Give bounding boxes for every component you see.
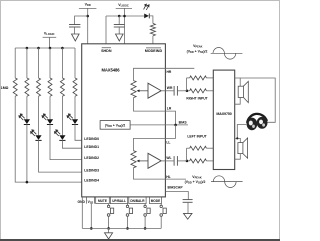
LED D1 col2 xyxy=(19,96,30,124)
svg-text:(VDD + VSS)/2: (VDD + VSS)/2 xyxy=(105,124,125,129)
wiper right xyxy=(137,90,148,93)
wire col5 cathode to LEDIND1 xyxy=(62,140,81,148)
svg-text:LEDIND1: LEDIND1 xyxy=(84,145,99,149)
wire LL internal xyxy=(134,138,166,150)
wire button rail xyxy=(82,227,161,229)
node BIAS xyxy=(165,120,188,126)
sine symbol left xyxy=(211,176,243,188)
node VDD bypass xyxy=(75,15,89,25)
wire col4 cathode to LEDIND2 xyxy=(50,124,82,159)
pin MODEIND xyxy=(145,48,163,53)
resistor R2 col2 xyxy=(25,48,29,96)
svg-text:RIGHT INPUT: RIGHT INPUT xyxy=(186,97,207,101)
label VLOGIC xyxy=(118,3,129,8)
pin HR wire xyxy=(165,68,194,74)
svg-text:MODEIND: MODEIND xyxy=(145,49,163,53)
svg-text:HL: HL xyxy=(166,175,170,179)
ground rail symbol xyxy=(105,228,113,239)
svg-text:MAX9750: MAX9750 xyxy=(216,112,231,116)
resistor R9 input right xyxy=(188,89,213,93)
wire VSS xyxy=(90,204,93,230)
label RIGHT INPUT xyxy=(186,97,207,101)
svg-text:BIAS: BIAS xyxy=(179,120,188,124)
wire col6 cathode to LEDIND0 xyxy=(75,124,82,140)
speaker left xyxy=(238,138,248,158)
svg-text:LEDIND3: LEDIND3 xyxy=(84,169,99,173)
switch S4 MODE xyxy=(160,204,166,229)
switch S2 UP/BALL xyxy=(126,204,132,230)
svg-text:LR: LR xyxy=(167,107,172,111)
svg-text:(VDD + VSS)/2: (VDD + VSS)/2 xyxy=(185,180,206,185)
svg-text:HR: HR xyxy=(167,70,172,74)
svg-text:LEDIND0: LEDIND0 xyxy=(84,137,99,141)
LED D5 col6 xyxy=(67,96,78,124)
capacitor C6 xyxy=(183,200,193,214)
ground C6 xyxy=(184,213,193,219)
pin WL wire xyxy=(165,156,173,161)
speaker right xyxy=(238,81,248,102)
svg-text:MODE: MODE xyxy=(151,199,160,203)
node left input xyxy=(186,148,189,162)
sine symbol right xyxy=(211,47,243,59)
op-amp A1 xyxy=(148,83,165,98)
wire LED rail xyxy=(15,47,75,49)
svg-text:SHDN: SHDN xyxy=(101,49,112,53)
annotation VPEAK right xyxy=(187,44,208,54)
svg-text:UP/BALL: UP/BALL xyxy=(112,199,126,203)
pin WR wire xyxy=(165,86,173,91)
pin LR wire xyxy=(165,107,175,125)
capacitor C4 xyxy=(174,86,187,96)
ground C2 xyxy=(116,34,124,41)
pin LEDIND4 xyxy=(84,179,99,183)
potentiometer right xyxy=(131,81,165,112)
wire OUTR- xyxy=(235,97,241,104)
capacitor C1 xyxy=(69,25,80,35)
svg-text:VPEAK: VPEAK xyxy=(192,175,202,180)
capacitor C2 xyxy=(114,25,125,35)
label VLOGIC array xyxy=(44,32,55,37)
svg-text:LEDIND4: LEDIND4 xyxy=(84,179,99,183)
svg-text:VLOGIC: VLOGIC xyxy=(44,32,55,37)
LED D3 col4 xyxy=(42,96,53,124)
IC U1 MAX5486 xyxy=(82,44,166,197)
pin MODE box xyxy=(150,197,162,204)
potentiometer left xyxy=(131,151,165,179)
svg-text:WR: WR xyxy=(167,86,173,90)
svg-text:MUTE: MUTE xyxy=(98,199,107,203)
pin LL wire xyxy=(165,125,175,144)
supply VLOGIC array xyxy=(43,37,57,48)
LED D6 mode indicator xyxy=(144,4,150,18)
supply VLOGIC xyxy=(106,8,144,43)
ground C1 xyxy=(72,34,80,41)
svg-text:VLOGIC: VLOGIC xyxy=(118,3,129,8)
svg-text:DN/BALR: DN/BALR xyxy=(130,199,145,203)
wire col2 cathode to LEDIND4 xyxy=(26,124,29,183)
svg-text:LEFT INPUT: LEFT INPUT xyxy=(187,134,206,138)
pin LEDIND0 xyxy=(84,137,99,141)
pin UP/BALL box xyxy=(110,197,127,204)
op-amp A2 xyxy=(148,153,165,168)
wire GND xyxy=(81,197,83,229)
resistor R1 col1 xyxy=(13,48,17,96)
pin BIASCAP wire xyxy=(165,186,188,200)
node right input xyxy=(186,78,189,92)
label VDD xyxy=(85,3,91,8)
wire OUTL+ headphone left xyxy=(235,125,247,143)
svg-text:LL: LL xyxy=(166,140,170,144)
svg-text:LEDIND2: LEDIND2 xyxy=(84,156,99,160)
node rail junctions xyxy=(26,47,64,50)
resistor R6 col6 xyxy=(73,48,77,96)
wiper left xyxy=(137,160,148,163)
IC U2 MAX9750 xyxy=(213,70,234,169)
pin LEDIND3 xyxy=(84,169,99,173)
wire col1 to LEDIND4 xyxy=(15,96,82,182)
bias box (VDD+VSS)/2 xyxy=(100,121,165,130)
resistor R7 xyxy=(150,23,155,43)
resistor R11 input left xyxy=(188,159,213,163)
svg-text:BIASCAP: BIASCAP xyxy=(168,186,184,190)
svg-text:VPEAK: VPEAK xyxy=(193,44,203,49)
svg-text:WL: WL xyxy=(166,156,171,160)
headphones xyxy=(247,114,268,130)
pin MUTE box xyxy=(96,197,110,204)
svg-text:(VDD + VSS)/2: (VDD + VSS)/2 xyxy=(187,50,208,55)
switch S1 MUTE xyxy=(107,204,113,230)
pin GND xyxy=(77,197,86,204)
pin SHDN xyxy=(101,48,112,53)
pin VSS xyxy=(88,197,95,204)
wire OUTR+ headphone right xyxy=(235,78,276,122)
svg-text:VSS: VSS xyxy=(88,200,94,205)
pin DN/BALR box xyxy=(129,197,146,204)
wire LED D6 cathode xyxy=(149,16,153,24)
node VLOGIC bypass xyxy=(118,15,126,25)
wire col3 cathode to LEDIND3 xyxy=(39,140,82,172)
supply VDD xyxy=(79,8,97,43)
LED D2 col3 xyxy=(31,96,42,140)
svg-text:GND: GND xyxy=(77,200,85,204)
pin HL wire xyxy=(165,175,186,179)
svg-text:VDD: VDD xyxy=(85,3,91,8)
wire HR internal xyxy=(134,68,166,80)
pin LEDIND1 xyxy=(84,145,99,149)
resistor R3 col3 xyxy=(37,48,41,96)
pin LEDIND2 xyxy=(84,156,99,160)
label 1M ohm xyxy=(1,86,9,90)
resistor R8 feedback right xyxy=(187,76,214,80)
svg-text:1MΩ: 1MΩ xyxy=(1,86,9,90)
resistor R4 col4 xyxy=(48,48,52,96)
switch S3 DN/BALR xyxy=(144,204,150,230)
label LEFT INPUT xyxy=(187,134,206,138)
wire OUTL- xyxy=(235,154,241,160)
annotation VPEAK left xyxy=(185,175,206,185)
svg-text:MAX5486: MAX5486 xyxy=(102,67,121,72)
LED D4 col5 xyxy=(54,96,65,140)
capacitor C5 xyxy=(174,156,187,166)
resistor R5 col5 xyxy=(60,48,64,96)
resistor R10 feedback left xyxy=(187,146,214,150)
